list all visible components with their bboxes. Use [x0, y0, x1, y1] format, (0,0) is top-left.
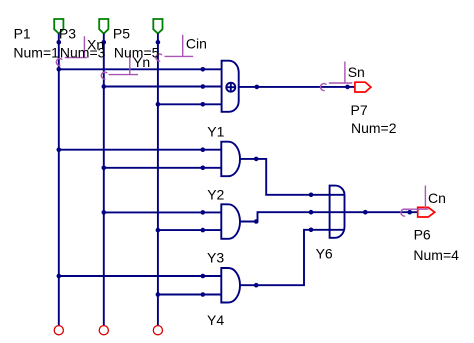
pin dot Y1 output [254, 157, 259, 162]
pin dots Y1 inputs [201, 147, 206, 152]
wire Yn vertical [103, 34, 105, 326]
label Xn pennant [56, 36, 87, 65]
pin dots Y3 inputs [201, 274, 206, 279]
svg-text:P6: P6 [414, 226, 431, 242]
wire Y1 output to or gate [240, 159, 344, 195]
pin dot Y2 output [254, 219, 259, 224]
pin dot or gate output [363, 210, 368, 215]
wire XOR input 2 [104, 86, 222, 88]
pin dots Y2 inputs [201, 210, 206, 215]
wire XOR input 3 [158, 103, 222, 105]
label Yn pennant [101, 52, 138, 80]
svg-text:Y1: Y1 [207, 123, 224, 139]
svg-text:Xn: Xn [87, 36, 104, 52]
node open circle 3 [153, 326, 162, 335]
svg-text:Y3: Y3 [207, 250, 224, 266]
pin dots xor inputs [201, 67, 206, 72]
node open circle 2 [99, 326, 108, 335]
xor gate body [222, 61, 239, 112]
wire Xn vertical [58, 34, 60, 326]
or gate Y6 body [330, 186, 345, 238]
svg-text:Num=4: Num=4 [413, 247, 459, 263]
svg-text:P7: P7 [351, 102, 368, 118]
and gate Y2 body [221, 204, 240, 239]
svg-text:Num=2: Num=2 [351, 120, 397, 136]
svg-text:Yn: Yn [133, 54, 150, 70]
wire Y2 output to or gate [240, 212, 344, 221]
svg-text:Cn: Cn [428, 190, 446, 206]
and gate Y1 inputs [59, 149, 222, 151]
and gate Y3 Y4 inputs [59, 275, 222, 277]
xor symbol circle-plus [226, 83, 235, 92]
svg-text:Y2: Y2 [207, 186, 224, 202]
svg-text:P1: P1 [14, 25, 31, 41]
label Cin pennant [156, 35, 193, 61]
label Cn pennant [401, 186, 428, 217]
junction dots wire A [57, 40, 62, 45]
svg-text:P5: P5 [113, 25, 130, 41]
junction dots wire C [156, 40, 161, 45]
and gate Y1 body [221, 142, 240, 177]
wire XOR input 1 [59, 68, 222, 70]
wire Cn from or output to port P6 [345, 211, 418, 213]
port P5 [153, 19, 162, 34]
svg-text:P3: P3 [59, 25, 76, 41]
wire Sn from xor output to port P7 [239, 86, 355, 88]
pin dots or gate inputs [309, 193, 314, 198]
port P1 [54, 19, 63, 34]
pin dot xor output [254, 85, 259, 90]
svg-text:Sn: Sn [348, 64, 365, 80]
port P3 [99, 19, 108, 34]
and gate Y2 inputs [104, 211, 222, 213]
svg-text:Num=1: Num=1 [13, 44, 59, 60]
pin dot port P7 [345, 85, 350, 90]
label Sn pennant [321, 62, 353, 91]
svg-text:Cin: Cin [186, 36, 207, 52]
junction dots wire B [102, 40, 107, 45]
port P7 [355, 82, 371, 92]
wire Y3 output to or gate [240, 230, 344, 285]
pin dot Y3 output [254, 283, 259, 288]
wire Cin vertical [157, 34, 159, 326]
and gate Y3 Y4 body [221, 268, 240, 303]
node open circle 1 [54, 326, 63, 335]
svg-text:Y6: Y6 [316, 246, 333, 262]
pin dot port P6 [407, 210, 412, 215]
svg-text:Y4: Y4 [207, 312, 224, 328]
port P6 [418, 207, 435, 217]
